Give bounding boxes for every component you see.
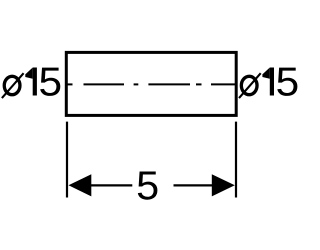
centerline dash 1: [67, 83, 73, 85]
centerline dot 1: [134, 83, 139, 85]
label diameter left: digit 1 stem: [33, 68, 37, 96]
extension line right: [235, 122, 237, 198]
label diameter left: slash of diameter symbol: [2, 73, 24, 98]
centerline dash 4: [211, 83, 236, 85]
centerline dash 2: [84, 83, 125, 85]
label diameter left: o of diameter symbol: [4, 76, 20, 94]
dimension line right segment: [174, 184, 214, 186]
label diameter right: slash of diameter symbol: [239, 73, 261, 98]
extension line left: [66, 122, 68, 198]
arrowhead left: [69, 174, 92, 196]
label diameter right: digit 5: [277, 68, 297, 96]
dimension line left segment: [90, 184, 132, 186]
cylinder body outline: [66, 52, 236, 115]
label diameter right: digit 1 flag: [262, 68, 269, 79]
label diameter left: digit 1 flag: [25, 68, 32, 79]
centerline dot 2: [196, 83, 202, 85]
label diameter right: o of diameter symbol: [241, 76, 257, 94]
label diameter right: digit 1 stem: [270, 68, 274, 96]
arrowhead right: [212, 174, 235, 196]
centerline dash 3: [148, 83, 190, 85]
label length 5: [138, 171, 158, 199]
label diameter left: digit 5: [40, 68, 60, 96]
